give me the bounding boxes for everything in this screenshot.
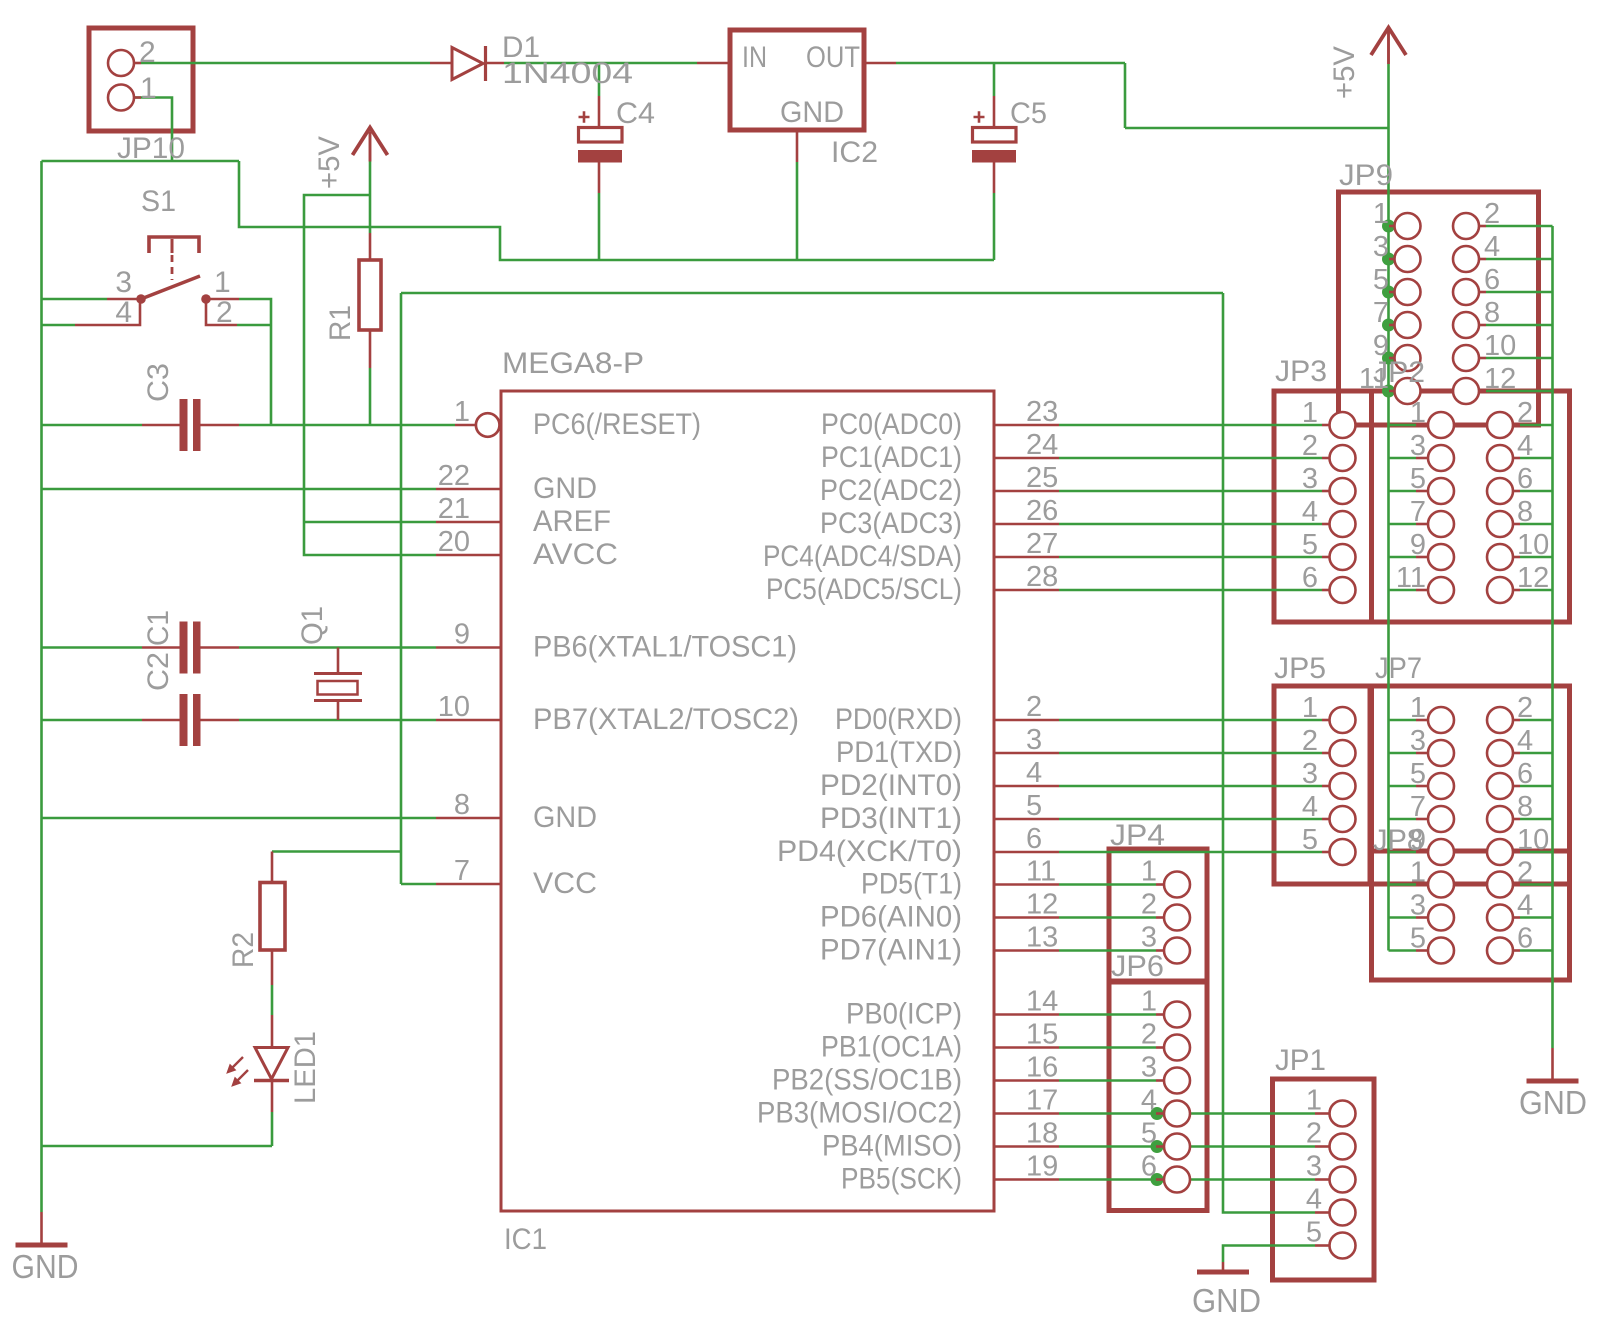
svg-text:PC4(ADC4/SDA): PC4(ADC4/SDA) bbox=[763, 540, 962, 573]
svg-text:2: 2 bbox=[1517, 397, 1533, 429]
wire GND column right side JP9/JP2/JP7/JP8 evens bbox=[1551, 226, 1554, 1048]
wire +5V net (IC2 OUT right) bbox=[896, 62, 1125, 65]
IC1 pin 4 line bbox=[994, 785, 1059, 788]
svg-text:6: 6 bbox=[1517, 463, 1533, 495]
svg-text:8: 8 bbox=[1517, 496, 1533, 528]
svg-text:JP10: JP10 bbox=[117, 132, 185, 165]
wire +5V branch JP9 pin9 bbox=[1389, 357, 1395, 360]
svg-text:3: 3 bbox=[1026, 724, 1042, 756]
svg-text:7: 7 bbox=[1410, 496, 1426, 528]
svg-text:27: 27 bbox=[1026, 528, 1058, 560]
svg-text:3: 3 bbox=[1141, 922, 1157, 954]
svg-text:4: 4 bbox=[115, 296, 132, 329]
wire VIN net top (JP10-2 to D1) bbox=[141, 62, 430, 65]
wire GND net step bbox=[239, 161, 994, 260]
resistor R1 bottom pin bbox=[369, 330, 372, 368]
connector JP6 box bbox=[1109, 981, 1207, 1211]
svg-text:OUT: OUT bbox=[806, 41, 860, 74]
svg-text:22: 22 bbox=[438, 460, 470, 492]
connector JP2 pin 2 circle bbox=[1487, 412, 1513, 438]
capacitor C3 left plate bbox=[180, 399, 188, 451]
connector JP7 box bbox=[1372, 686, 1570, 884]
svg-text:PD3(INT1): PD3(INT1) bbox=[820, 802, 962, 835]
wire JP2 pin4 to GND column bbox=[1520, 457, 1553, 460]
diode D1 cathode pin bbox=[486, 62, 504, 65]
IC1 pin 21 line bbox=[436, 521, 501, 524]
svg-text:1: 1 bbox=[214, 266, 231, 299]
IC1 pin 16 line bbox=[994, 1079, 1059, 1082]
IC1 pin 14 line bbox=[994, 1013, 1059, 1016]
LED1 anode pin bbox=[271, 1015, 274, 1048]
svg-text:4: 4 bbox=[1306, 1184, 1322, 1216]
wire XTAL2 net C2 to IC1 pin10 bbox=[239, 719, 436, 722]
svg-text:JP1: JP1 bbox=[1275, 1044, 1326, 1077]
svg-text:12: 12 bbox=[1026, 889, 1058, 921]
LED1 cathode pin bbox=[271, 1082, 274, 1112]
svg-text:15: 15 bbox=[1026, 1019, 1058, 1051]
wire JP9 pin10 to GND column bbox=[1486, 357, 1553, 360]
wire XTAL2 net left of C2 bbox=[42, 719, 143, 722]
connector JP3 pin 2 circle bbox=[1330, 445, 1356, 471]
svg-text:1: 1 bbox=[1410, 857, 1426, 889]
resistor R2 top pin bbox=[271, 852, 274, 883]
connector JP3 pin 6 circle bbox=[1330, 577, 1356, 603]
connector JP2 pin 11 circle bbox=[1428, 577, 1454, 603]
diode D1 triangle bbox=[452, 48, 483, 80]
IC1 MEGA8-P box bbox=[501, 391, 994, 1211]
connector JP2 pin 9 circle bbox=[1428, 544, 1454, 570]
connector JP6 pin 6 circle bbox=[1164, 1167, 1190, 1193]
wire C5 bottom to GND rail bbox=[993, 193, 996, 260]
IC1 pin 24 line bbox=[994, 457, 1059, 460]
wire GND net left rail horizontal bbox=[42, 160, 240, 163]
svg-text:+5V: +5V bbox=[313, 136, 346, 189]
wire PD2 net IC1 pin4 to JP5 pin3 bbox=[1059, 785, 1322, 788]
connector JP1 box bbox=[1273, 1079, 1375, 1280]
junction dot ISP at JP6 pin4 bbox=[1151, 1107, 1164, 1120]
svg-text:GND: GND bbox=[1519, 1084, 1587, 1121]
connector JP9 pin 5 circle bbox=[1395, 279, 1421, 305]
connector JP2 pin 10 circle bbox=[1487, 544, 1513, 570]
wire ADC2 net IC1 pin25 to JP3 pin3 bbox=[1059, 490, 1322, 493]
svg-text:JP6: JP6 bbox=[1111, 950, 1164, 983]
svg-text:6: 6 bbox=[1517, 758, 1533, 790]
switch S1 pin 1 bbox=[206, 298, 239, 301]
wire GND net to IC1 pin22 bbox=[42, 488, 437, 491]
svg-text:R2: R2 bbox=[227, 932, 260, 968]
wire +5V vertical feed JP9/JP2/JP7/JP8 odd pins bbox=[1387, 64, 1390, 951]
LED1 triangle bbox=[255, 1048, 288, 1080]
IC1 pin 22 line bbox=[436, 488, 501, 491]
connector JP7 pin 3 circle bbox=[1428, 740, 1454, 766]
crystal Q1 body bbox=[318, 681, 358, 695]
svg-text:20: 20 bbox=[438, 526, 470, 558]
wire +5V branch JP9 pin5 bbox=[1389, 291, 1395, 294]
svg-text:C3: C3 bbox=[142, 363, 175, 402]
connector JP9 pin 7 circle bbox=[1395, 312, 1421, 338]
wire S1 pin2 to RESET vertical bbox=[237, 324, 271, 327]
svg-text:PB5(SCK): PB5(SCK) bbox=[841, 1163, 962, 1196]
svg-text:12: 12 bbox=[1517, 562, 1549, 594]
LED1 emission arrow lower bbox=[235, 1070, 248, 1083]
svg-text:C1: C1 bbox=[142, 610, 175, 646]
capacitor C4 plus sign bbox=[579, 111, 590, 122]
IC1 pin 20 line bbox=[436, 554, 501, 557]
switch S1 bracket bbox=[149, 237, 199, 253]
svg-text:3: 3 bbox=[1141, 1052, 1157, 1084]
wire ADC3 net IC1 pin26 to JP3 pin4 bbox=[1059, 523, 1322, 526]
wire +5V branch JP2 pin5 bbox=[1389, 490, 1417, 493]
connector JP7 pin 9 circle bbox=[1428, 839, 1454, 865]
connector JP5 pin 3 circle bbox=[1330, 773, 1356, 799]
svg-text:7: 7 bbox=[1410, 791, 1426, 823]
wire ADC5 net IC1 pin28 to JP3 pin6 bbox=[1059, 589, 1322, 592]
capacitor C5 bottom plate bbox=[972, 150, 1016, 163]
crystal Q1 top plate bbox=[314, 672, 362, 675]
svg-text:JP3: JP3 bbox=[1275, 355, 1327, 388]
svg-text:PD7(AIN1): PD7(AIN1) bbox=[820, 934, 962, 967]
wire JP7 pin4 to GND column bbox=[1520, 752, 1553, 755]
svg-text:IC2: IC2 bbox=[831, 136, 878, 169]
crystal Q1 bottom pin bbox=[337, 702, 340, 720]
connector JP2 pin 5 circle bbox=[1428, 478, 1454, 504]
svg-text:2: 2 bbox=[139, 36, 156, 69]
wire C5 top branch bbox=[993, 63, 996, 96]
svg-text:2: 2 bbox=[1302, 430, 1318, 462]
connector JP2 pin 6 circle bbox=[1487, 478, 1513, 504]
capacitor C1 right pin bbox=[201, 646, 240, 649]
connector JP6 pin 4 circle bbox=[1164, 1101, 1190, 1127]
svg-text:2: 2 bbox=[1517, 857, 1533, 889]
ground symbol bottom left bbox=[40, 1212, 43, 1243]
capacitor C5 plus sign bbox=[974, 111, 985, 122]
svg-text:6: 6 bbox=[1302, 562, 1318, 594]
svg-text:7: 7 bbox=[1373, 297, 1389, 329]
connector JP7 pin 7 circle bbox=[1428, 806, 1454, 832]
IC2 GND pin bbox=[796, 130, 799, 162]
svg-text:9: 9 bbox=[1410, 824, 1426, 856]
svg-text:PB3(MOSI/OC2): PB3(MOSI/OC2) bbox=[757, 1097, 962, 1130]
svg-text:C5: C5 bbox=[1010, 97, 1047, 130]
connector JP9 pin 9 circle bbox=[1395, 345, 1421, 371]
wire +5V arrow1 stem green bbox=[369, 162, 372, 234]
IC1 pin 15 line bbox=[994, 1046, 1059, 1049]
wire JP2 pin12 to GND column bbox=[1520, 589, 1553, 592]
connector JP10 pin 2 stub bbox=[134, 62, 141, 65]
connector JP4 pin 2 circle bbox=[1164, 905, 1190, 931]
svg-text:GND: GND bbox=[533, 472, 597, 505]
svg-text:10: 10 bbox=[1517, 824, 1549, 856]
switch S1 actuator stem bbox=[171, 239, 174, 253]
capacitor C3 left pin bbox=[142, 424, 180, 427]
capacitor C4 top plate bbox=[579, 128, 623, 143]
connector JP4 pin 3 circle bbox=[1164, 938, 1190, 964]
svg-text:2: 2 bbox=[1141, 1019, 1157, 1051]
svg-text:10: 10 bbox=[1517, 529, 1549, 561]
svg-text:5: 5 bbox=[1141, 1118, 1157, 1150]
svg-text:PD4(XCK/T0): PD4(XCK/T0) bbox=[777, 835, 962, 868]
wire +5V branch JP2 pin3 bbox=[1389, 457, 1417, 460]
connector JP6 pin 1 circle bbox=[1164, 1002, 1190, 1028]
svg-text:4: 4 bbox=[1517, 430, 1533, 462]
wire +5V branch JP2 pin9 bbox=[1389, 556, 1417, 559]
svg-text:5: 5 bbox=[1410, 463, 1426, 495]
wire +5V net corner down bbox=[1124, 63, 1127, 128]
svg-text:C4: C4 bbox=[616, 97, 655, 130]
svg-text:5: 5 bbox=[1306, 1217, 1322, 1249]
connector JP3 box bbox=[1274, 391, 1372, 622]
wire R2 bottom to LED1 bbox=[271, 985, 274, 1015]
junction dot +5V at JP9 pin11 bbox=[1382, 385, 1395, 398]
svg-text:5: 5 bbox=[1302, 529, 1318, 561]
connector JP9 pin 4 circle bbox=[1453, 246, 1479, 272]
svg-text:PC6(/RESET): PC6(/RESET) bbox=[533, 408, 701, 441]
connector JP5 pin 1 circle bbox=[1330, 707, 1356, 733]
connector JP3 pin 5 circle bbox=[1330, 544, 1356, 570]
junction dot +5V at JP9 pin9 bbox=[1382, 352, 1395, 365]
connector JP8 pin 5 circle bbox=[1428, 938, 1454, 964]
svg-text:8: 8 bbox=[1517, 791, 1533, 823]
svg-text:PB7(XTAL2/TOSC2): PB7(XTAL2/TOSC2) bbox=[533, 703, 799, 736]
svg-text:1: 1 bbox=[1306, 1085, 1322, 1117]
crystal Q1 bottom plate bbox=[314, 699, 362, 702]
svg-text:1: 1 bbox=[1410, 397, 1426, 429]
wire R2 top to VCC vertical bbox=[272, 850, 401, 853]
resistor R2 bottom pin bbox=[271, 950, 274, 985]
wire PD0 net IC1 pin2 to JP5 pin1 bbox=[1059, 719, 1322, 722]
IC2 IN pin bbox=[697, 62, 730, 65]
wire +5V branch JP9 pin7 bbox=[1389, 324, 1395, 327]
capacitor C3 right plate bbox=[193, 399, 201, 451]
svg-text:2: 2 bbox=[1484, 198, 1500, 230]
connector JP7 pin 4 circle bbox=[1487, 740, 1513, 766]
ground symbol below JP1 bbox=[1222, 1262, 1225, 1270]
diode D1 anode pin bbox=[430, 62, 452, 65]
connector JP7 pin 10 circle bbox=[1487, 839, 1513, 865]
wire JP9 pin2 to GND column bbox=[1486, 225, 1553, 228]
switch S1 lever bbox=[141, 276, 200, 299]
wire JP8 pin4 to GND column bbox=[1520, 916, 1553, 919]
connector JP2 pin 3 circle bbox=[1428, 445, 1454, 471]
wire +5V branch JP9 pin1 bbox=[1389, 225, 1395, 228]
svg-text:Q1: Q1 bbox=[296, 606, 329, 645]
IC1 pin 7 line bbox=[436, 883, 501, 886]
connector JP6 pin 5 circle bbox=[1164, 1134, 1190, 1160]
svg-text:JP4: JP4 bbox=[1110, 819, 1165, 852]
svg-text:12: 12 bbox=[1484, 363, 1516, 395]
connector JP10 pin 2 circle bbox=[108, 50, 134, 76]
svg-text:18: 18 bbox=[1026, 1118, 1058, 1150]
svg-text:16: 16 bbox=[1026, 1052, 1058, 1084]
switch S1 contact dot left bbox=[136, 294, 146, 304]
svg-text:24: 24 bbox=[1026, 429, 1058, 461]
wire LED1 cathode down bbox=[271, 1112, 274, 1146]
wire JP8 pin2 to GND column bbox=[1520, 883, 1553, 886]
connector JP2 pin 4 circle bbox=[1487, 445, 1513, 471]
svg-text:5: 5 bbox=[1302, 824, 1318, 856]
connector JP7 pin 1 circle bbox=[1428, 707, 1454, 733]
svg-text:PC3(ADC3): PC3(ADC3) bbox=[820, 507, 962, 540]
svg-text:4: 4 bbox=[1302, 496, 1318, 528]
svg-text:7: 7 bbox=[454, 855, 470, 887]
svg-text:10: 10 bbox=[1484, 330, 1516, 362]
svg-text:13: 13 bbox=[1026, 922, 1058, 954]
IC1 pin 19 line bbox=[994, 1178, 1059, 1181]
IC1 pin 6 line bbox=[994, 851, 1059, 854]
wire PB1 net IC1 pin15 to JP6 pin2 bbox=[1059, 1046, 1156, 1049]
svg-text:GND: GND bbox=[780, 96, 844, 129]
wire PD4 net IC1 pin6 to JP5 pin5 bbox=[1059, 851, 1322, 854]
switch S1 pin 3 bbox=[107, 298, 137, 301]
connector JP8 pin 1 circle bbox=[1428, 872, 1454, 898]
IC1 pin 1 inversion bubble bbox=[476, 413, 500, 437]
switch S1 contact dot right bbox=[201, 294, 211, 304]
svg-text:PC0(ADC0): PC0(ADC0) bbox=[821, 408, 962, 441]
wire +5V branch JP2 pin7 bbox=[1389, 523, 1417, 526]
connector JP9 pin 11 circle bbox=[1395, 378, 1421, 404]
IC1 pin 9 line bbox=[436, 646, 501, 649]
connector JP6 pin 3 circle bbox=[1164, 1068, 1190, 1094]
crystal Q1 top pin bbox=[337, 648, 340, 673]
wire +5V branch JP8 pin1 bbox=[1389, 883, 1417, 886]
wire PD5 net IC1 pin11 to JP4 pin1 bbox=[1059, 883, 1156, 886]
IC1 pin 10 line bbox=[436, 719, 501, 722]
connector JP7 pin 8 circle bbox=[1487, 806, 1513, 832]
wire +5V vertical at x401 to VCC bbox=[400, 293, 403, 884]
connector JP8 pin 4 circle bbox=[1487, 905, 1513, 931]
connector JP7 pin 6 circle bbox=[1487, 773, 1513, 799]
connector JP5 pin 4 circle bbox=[1330, 806, 1356, 832]
switch S1 dashed actuator link bbox=[171, 255, 174, 280]
svg-text:3: 3 bbox=[1410, 430, 1426, 462]
connector JP10 box bbox=[89, 28, 193, 131]
connector JP7 pin 2 circle bbox=[1487, 707, 1513, 733]
wire +5V branch to AREF/AVCC bbox=[304, 195, 436, 555]
svg-text:2: 2 bbox=[1302, 725, 1318, 757]
svg-text:GND: GND bbox=[12, 1248, 79, 1285]
+5V supply arrow left bbox=[353, 128, 388, 156]
svg-text:1: 1 bbox=[1410, 692, 1426, 724]
svg-text:VCC: VCC bbox=[533, 867, 597, 900]
resistor R2 body bbox=[260, 883, 285, 951]
wire LED1 to GND left rail bbox=[42, 1145, 273, 1148]
svg-text:3: 3 bbox=[1302, 463, 1318, 495]
wire VIN net (D1 cathode to IC2 IN) bbox=[504, 62, 697, 65]
connector JP2 pin 12 circle bbox=[1487, 577, 1513, 603]
wire +5V branch JP7 pin1 bbox=[1389, 719, 1417, 722]
connector JP1 pin 2 circle bbox=[1330, 1134, 1356, 1160]
svg-text:JP7: JP7 bbox=[1375, 652, 1422, 685]
svg-text:1: 1 bbox=[1302, 692, 1318, 724]
resistor R1 top pin bbox=[369, 233, 372, 260]
svg-text:GND: GND bbox=[1192, 1282, 1261, 1319]
svg-text:GND: GND bbox=[533, 801, 597, 834]
svg-text:5: 5 bbox=[1026, 790, 1042, 822]
svg-text:+5V: +5V bbox=[1328, 46, 1361, 99]
connector JP2 pin 1 circle bbox=[1428, 412, 1454, 438]
svg-text:3: 3 bbox=[1410, 890, 1426, 922]
svg-text:PB6(XTAL1/TOSC1): PB6(XTAL1/TOSC1) bbox=[533, 631, 797, 664]
IC1 pin 17 line bbox=[994, 1112, 1059, 1115]
svg-text:PD1(TXD): PD1(TXD) bbox=[836, 736, 962, 769]
connector JP9 pin 3 circle bbox=[1395, 246, 1421, 272]
wire ISP net IC1 pin19 to JP6 pin6 and JP1 pin3 bbox=[1059, 1178, 1315, 1181]
capacitor C2 left plate bbox=[180, 694, 188, 746]
wire S1 pin1 to RESET net bbox=[239, 299, 271, 425]
svg-text:LED1: LED1 bbox=[289, 1031, 322, 1104]
svg-text:AREF: AREF bbox=[533, 505, 611, 538]
svg-text:IC1: IC1 bbox=[504, 1223, 547, 1256]
svg-text:6: 6 bbox=[1141, 1151, 1157, 1183]
junction dot +5V at JP9 pin1 bbox=[1382, 220, 1395, 233]
svg-text:25: 25 bbox=[1026, 462, 1058, 494]
svg-text:23: 23 bbox=[1026, 396, 1058, 428]
connector JP3 pin 1 circle bbox=[1330, 412, 1356, 438]
connector JP1 pin 3 circle bbox=[1330, 1167, 1356, 1193]
wire XTAL1 net left of C1 bbox=[42, 646, 143, 649]
junction dot +5V at JP9 pin5 bbox=[1382, 286, 1395, 299]
connector JP5 pin 5 circle bbox=[1330, 839, 1356, 865]
wire JP9 pin4 to GND column bbox=[1486, 258, 1553, 261]
wire JP9 pin6 to GND column bbox=[1486, 291, 1553, 294]
wire JP8 pin6 to GND column bbox=[1520, 949, 1553, 952]
capacitor C1 left plate bbox=[180, 622, 188, 674]
wire ADC0 net IC1 pin23 to JP3 pin1 bbox=[1059, 424, 1322, 427]
capacitor C2 right pin bbox=[201, 719, 240, 722]
wire RESET net left of C3 bbox=[42, 424, 143, 427]
wire ADC4 net IC1 pin27 to JP3 pin5 bbox=[1059, 556, 1322, 559]
svg-text:S1: S1 bbox=[141, 185, 176, 218]
connector JP9 pin 2 circle bbox=[1453, 213, 1479, 239]
IC1 pin 3 line bbox=[994, 752, 1059, 755]
connector JP2 pin 7 circle bbox=[1428, 511, 1454, 537]
svg-text:2: 2 bbox=[1517, 692, 1533, 724]
connector JP8 pin 3 circle bbox=[1428, 905, 1454, 931]
junction dot +5V at JP9 pin7 bbox=[1382, 319, 1395, 332]
wire +5V branch JP7 pin7 bbox=[1389, 818, 1417, 821]
connector JP10 pin 1 circle bbox=[108, 85, 134, 111]
svg-text:10: 10 bbox=[438, 691, 470, 723]
junction dot ISP at JP6 pin6 bbox=[1151, 1173, 1164, 1186]
switch S1 pin 2 bbox=[206, 301, 237, 325]
svg-text:PC2(ADC2): PC2(ADC2) bbox=[820, 474, 962, 507]
LED1 emission arrow upper bbox=[230, 1057, 243, 1070]
svg-text:PB0(ICP): PB0(ICP) bbox=[846, 998, 962, 1031]
svg-text:14: 14 bbox=[1026, 986, 1058, 1018]
svg-text:19: 19 bbox=[1026, 1151, 1058, 1183]
svg-text:C2: C2 bbox=[142, 652, 175, 691]
wire JP2 pin2 to GND column bbox=[1520, 424, 1553, 427]
resistor R1 body bbox=[359, 260, 381, 330]
svg-text:4: 4 bbox=[1141, 1085, 1157, 1117]
junction dot ISP at JP6 pin5 bbox=[1151, 1140, 1164, 1153]
connector JP7 pin 5 circle bbox=[1428, 773, 1454, 799]
wire +5V net to arrow stem bbox=[1125, 127, 1389, 130]
IC1 pin 26 line bbox=[994, 523, 1059, 526]
capacitor C4 negative pin bbox=[598, 163, 601, 194]
wire JP10-1 to GND net bbox=[135, 98, 172, 162]
svg-text:4: 4 bbox=[1517, 890, 1533, 922]
svg-text:1: 1 bbox=[1141, 986, 1157, 1018]
IC2 OUT pin bbox=[864, 62, 896, 65]
svg-text:PB2(SS/OC1B): PB2(SS/OC1B) bbox=[772, 1064, 962, 1097]
IC1 pin 8 line bbox=[436, 817, 501, 820]
IC2 voltage regulator box bbox=[730, 30, 864, 130]
svg-text:9: 9 bbox=[454, 619, 470, 651]
wire PB2 net IC1 pin16 to JP6 pin3 bbox=[1059, 1079, 1156, 1082]
wire JP7 pin8 to GND column bbox=[1520, 818, 1553, 821]
wire PB0 net IC1 pin14 to JP6 pin1 bbox=[1059, 1013, 1156, 1016]
